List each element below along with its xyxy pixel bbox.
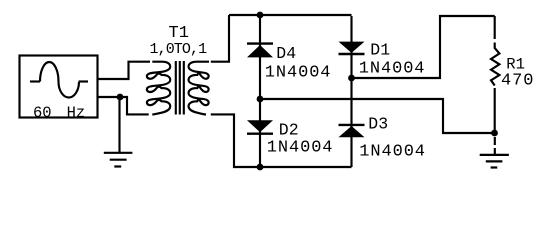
svg-text:1N4004: 1N4004 xyxy=(265,64,332,83)
svg-text:1,0TO,1: 1,0TO,1 xyxy=(150,41,208,58)
svg-text:1N4004: 1N4004 xyxy=(267,139,334,158)
svg-text:470: 470 xyxy=(501,71,534,90)
svg-text:D3: D3 xyxy=(368,115,388,134)
svg-text:D1: D1 xyxy=(370,41,390,60)
svg-text:Hz: Hz xyxy=(67,104,86,122)
svg-text:1N4004: 1N4004 xyxy=(359,143,426,162)
svg-text:1N4004: 1N4004 xyxy=(359,59,426,78)
svg-text:60: 60 xyxy=(33,104,52,122)
svg-text:D4: D4 xyxy=(276,44,296,63)
svg-text:D2: D2 xyxy=(279,120,299,139)
